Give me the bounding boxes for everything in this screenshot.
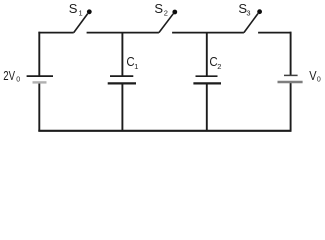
svg-text:1: 1 <box>134 62 138 71</box>
wire top segment: S3 to right corner <box>258 32 291 34</box>
svg-text:3: 3 <box>246 8 250 17</box>
switch S2 (lever and contact dot) <box>159 10 177 33</box>
wire left vertical lower (battery B1 to bottom wire) <box>38 82 40 130</box>
battery B2 (V0): short top plate and long grey bottom plate <box>278 75 303 82</box>
svg-text:2: 2 <box>164 8 168 17</box>
capacitor C2 <box>193 76 221 83</box>
wire top segment: S2 to S3 pivot (crosses C2 branch) <box>172 32 244 34</box>
battery B1 (2V0): long top plate and short grey bottom plate <box>27 76 53 82</box>
svg-text:S: S <box>69 1 78 16</box>
wire C2 branch lower <box>206 83 208 130</box>
svg-text:S: S <box>154 1 163 16</box>
wire C1 branch lower <box>121 83 123 130</box>
svg-text:0: 0 <box>317 77 321 84</box>
wire left vertical upper (corner to battery B1 top plate) <box>38 32 40 76</box>
capacitor C1 <box>108 76 136 83</box>
wire top segment: left corner to S1 pivot <box>38 32 73 34</box>
svg-text:V: V <box>309 68 317 83</box>
wire bottom <box>38 130 291 132</box>
wire C1 branch upper <box>121 33 123 77</box>
svg-text:1: 1 <box>79 9 83 18</box>
svg-text:2V: 2V <box>3 68 15 83</box>
wire C2 branch upper <box>206 33 208 77</box>
wire right vertical lower (battery B2 to bottom wire) <box>290 82 292 131</box>
wire top segment: S1 to S2 pivot (crosses C1 branch) <box>87 32 159 34</box>
switch S1 (lever and contact dot) <box>74 9 92 32</box>
svg-text:0: 0 <box>16 77 20 84</box>
wire right vertical upper (corner to battery B2 top plate) <box>290 32 292 76</box>
switch S3 (lever and contact dot) <box>244 9 262 32</box>
svg-text:2: 2 <box>217 62 221 71</box>
